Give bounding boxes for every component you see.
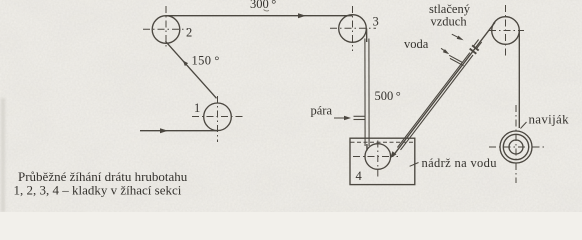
svg-text:1: 1 (194, 101, 200, 115)
svg-text:500 °: 500 ° (375, 89, 401, 103)
pulley 4 (353, 141, 398, 180)
leader naviják (521, 122, 527, 129)
arrow pára (334, 116, 351, 120)
arrow voda (441, 48, 449, 54)
annealing tube (500° vertical pipe) (365, 39, 369, 147)
arrow stlačený vzduch (452, 34, 464, 40)
water level dashed (351, 141, 415, 143)
svg-text:pára: pára (311, 104, 333, 118)
wire pulley2-pulley3 (300° section) (166, 15, 353, 17)
pulley 1 (192, 96, 243, 142)
svg-text:150 °: 150 ° (192, 54, 220, 68)
svg-text:3: 3 (373, 15, 379, 29)
svg-text:naviják: naviják (529, 112, 570, 127)
svg-text:300 °: 300 ° (250, 0, 276, 11)
water inlet stub (449, 55, 463, 65)
svg-text:1, 2, 3, 4 – kladky v žíhací s: 1, 2, 3, 4 – kladky v žíhací sekci (14, 183, 182, 198)
stray scan mark (264, 10, 270, 11)
arrow on 300° wire (298, 13, 306, 18)
pulley 2 (143, 6, 188, 48)
svg-text:vzduch: vzduch (431, 15, 468, 29)
leader nádrž na vodu (410, 163, 419, 167)
svg-text:2: 2 (186, 26, 192, 40)
wire inlet (bottom-left horizontal) (140, 130, 217, 132)
svg-text:nádrž na vodu: nádrž na vodu (422, 156, 498, 170)
wire pulley1-pulley2 (150° section) (166, 41, 217, 98)
wire pulley3 down into annealing tube (366, 29, 368, 43)
wire top pulley down to winch (518, 31, 520, 129)
pulley 3 (330, 6, 376, 51)
winch (naviják) (489, 105, 545, 183)
svg-text:4: 4 (356, 169, 363, 183)
arrowhead at pipe bottom toward pulley 4 (390, 151, 396, 158)
svg-text:voda: voda (404, 37, 429, 51)
arrow on 150° wire (183, 61, 188, 67)
wire tube exit to pulley 4 (366, 144, 368, 151)
wire through inclined air pipe (pulley4 to top pulley) (394, 22, 495, 154)
inclined compressed-air pipe (397, 40, 481, 150)
pulley top-right (489, 5, 524, 57)
steam inlet stub (354, 116, 366, 119)
arrow on inlet wire (160, 128, 168, 133)
pipe coupling flange (470, 45, 479, 53)
water tank (350, 138, 415, 184)
